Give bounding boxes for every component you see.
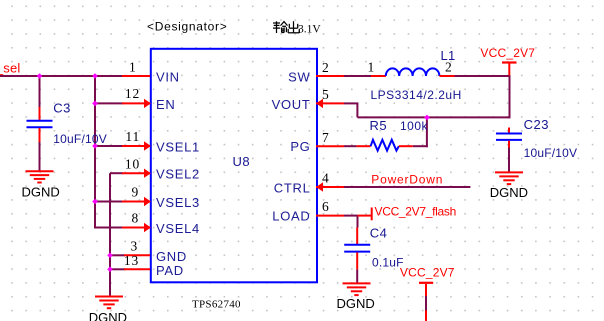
svg-text:8: 8: [131, 211, 139, 226]
wire GND pin branch: [110, 254, 125, 256]
svg-text:DGND: DGND: [337, 296, 375, 311]
pin 12 EN arrow: [144, 99, 151, 108]
wire VSEL4 branch: [95, 227, 123, 229]
wire C3 branch vertical: [39, 76, 41, 107]
wire VOUT net horizontal: [357, 116, 509, 118]
pin 4 CTRL arrow: [316, 182, 323, 191]
svg-text:4: 4: [322, 171, 330, 186]
svg-text:100k: 100k: [400, 119, 429, 133]
svg-text:PowerDown: PowerDown: [371, 173, 443, 187]
wire C4 to ground: [356, 269, 358, 283]
resistor R5: [357, 140, 413, 151]
wire SW to L1: [344, 75, 372, 77]
svg-text:10: 10: [125, 156, 140, 171]
svg-text:C4: C4: [370, 226, 388, 241]
pin 5 VOUT stub: [316, 102, 344, 104]
svg-text:DGND: DGND: [22, 184, 60, 199]
inductor L1: [371, 68, 455, 76]
junction node VOUT/R5: [424, 115, 430, 121]
ground DGND under C4: [337, 283, 375, 310]
wire L1 to VCC node: [455, 75, 511, 77]
junction node EN: [92, 101, 98, 107]
wire R5 right: [413, 145, 428, 147]
wire EN branch: [95, 102, 123, 104]
pin 6 LOAD stub: [316, 215, 344, 217]
wire PowerDown net: [344, 186, 470, 188]
svg-text:1: 1: [367, 60, 375, 75]
svg-text:CTRL: CTRL: [274, 181, 311, 196]
svg-text:PG: PG: [290, 139, 310, 154]
pin 8 VSEL4 arrow: [144, 223, 151, 232]
svg-text:DGND: DGND: [89, 310, 127, 321]
pin 12 EN stub: [122, 102, 150, 104]
svg-text:5: 5: [322, 87, 330, 102]
pin 13 PAD stub: [124, 268, 150, 270]
pin 2 SW stub: [316, 75, 344, 77]
IC U8 TPS62740 body rectangle: [151, 49, 317, 282]
power VCC_2V7 bottom: [400, 266, 455, 321]
svg-text:LPS3314/2.2uH: LPS3314/2.2uH: [371, 88, 462, 102]
junction node PAD: [107, 267, 113, 273]
svg-text:VCC_2V7_flash: VCC_2V7_flash: [375, 204, 456, 218]
svg-text:VCC_2V7: VCC_2V7: [480, 46, 535, 60]
svg-text:12: 12: [125, 86, 140, 101]
wire bottom VCC segment: [425, 296, 427, 311]
svg-text:10uF/10V: 10uF/10V: [53, 132, 107, 146]
svg-text:13: 13: [124, 253, 139, 268]
svg-text:6: 6: [322, 199, 330, 214]
svg-text:C23: C23: [524, 117, 549, 132]
svg-text:2: 2: [322, 60, 330, 75]
pin 7 PG stub: [316, 145, 344, 147]
wire LOAD to C4: [357, 216, 359, 228]
capacitor C3: [27, 107, 53, 142]
junction node GND: [107, 253, 113, 259]
svg-text:3: 3: [130, 238, 138, 253]
svg-text:_sel: _sel: [0, 60, 20, 75]
junction node VSEL1: [92, 143, 98, 149]
junction node VSEL3: [92, 199, 98, 205]
svg-text:VSEL3: VSEL3: [156, 195, 200, 210]
wire PG to R5: [344, 145, 357, 147]
pin 11 VSEL1 arrow: [144, 141, 151, 150]
capacitor C4: [344, 228, 370, 270]
svg-text:9: 9: [131, 185, 139, 200]
svg-text:1: 1: [129, 59, 137, 74]
capacitor C23: [496, 128, 522, 148]
pin 10 VSEL2 arrow: [144, 169, 151, 178]
svg-text:VSEL2: VSEL2: [156, 167, 200, 182]
ground DGND under C23: [490, 172, 528, 200]
power port VCC_2V7_flash: [358, 204, 456, 220]
svg-text:<Designator>: <Designator>: [147, 19, 227, 33]
svg-text:VSEL4: VSEL4: [156, 221, 200, 236]
pin 10 VSEL2 stub: [122, 172, 150, 174]
svg-text:11: 11: [125, 129, 140, 144]
svg-text:VSEL1: VSEL1: [156, 140, 200, 155]
junction node sel/bus: [92, 73, 98, 79]
svg-text:PAD: PAD: [156, 263, 184, 278]
wire VSEL3 branch: [95, 201, 123, 203]
wire VOUT vertical drop: [356, 103, 358, 117]
svg-text:DGND: DGND: [490, 185, 528, 200]
svg-text:3.1V: 3.1V: [298, 23, 321, 35]
wire R5 up to VOUT net: [426, 117, 428, 147]
pin 8 VSEL4 stub: [122, 227, 150, 229]
label output 3.1V CJK glyphs: [273, 21, 299, 33]
svg-text:VCC_2V7: VCC_2V7: [400, 266, 455, 280]
svg-text:VOUT: VOUT: [272, 97, 311, 112]
svg-text:10uF/10V: 10uF/10V: [524, 146, 578, 160]
wire sel net horizontal: [0, 75, 123, 77]
svg-text:L1: L1: [441, 48, 456, 63]
wire C23 to ground: [508, 148, 510, 172]
pin 9 VSEL3 arrow: [144, 197, 151, 206]
pin 5 VOUT arrow: [316, 99, 323, 108]
svg-text:SW: SW: [288, 70, 310, 85]
ground DGND mid bottom: [89, 297, 127, 321]
power VCC_2V7 top right: [480, 46, 535, 76]
wire C3 lower: [39, 142, 41, 171]
junction node sel/C3: [37, 73, 43, 79]
svg-text:U8: U8: [233, 154, 251, 169]
wire LOAD stub: [344, 215, 358, 217]
wire VSEL1 branch: [95, 145, 123, 147]
svg-text:LOAD: LOAD: [272, 208, 310, 223]
pin 3 GND stub: [124, 254, 150, 256]
pin 4 CTRL stub: [316, 186, 344, 188]
pin 1 VIN stub: [122, 75, 150, 77]
svg-text:VIN: VIN: [156, 70, 180, 85]
wire sel vertical bus x=95: [94, 75, 96, 229]
svg-text:EN: EN: [156, 97, 175, 112]
wire gnd vertical bus x=110: [109, 173, 111, 296]
svg-text:R5: R5: [370, 118, 388, 133]
svg-text:GND: GND: [156, 249, 187, 264]
wire VOUT horizontal stub: [344, 102, 358, 104]
wire VSEL2 branch: [110, 172, 123, 174]
wire VCC vertical: [509, 75, 511, 118]
pin 11 VSEL1 stub: [122, 145, 150, 147]
svg-text:7: 7: [322, 130, 330, 145]
svg-text:TPS62740: TPS62740: [192, 298, 241, 310]
ground DGND under C3: [22, 171, 60, 199]
pin 9 VSEL3 stub: [122, 201, 150, 203]
svg-text:C3: C3: [53, 101, 71, 116]
wire PAD pin branch: [110, 268, 125, 270]
